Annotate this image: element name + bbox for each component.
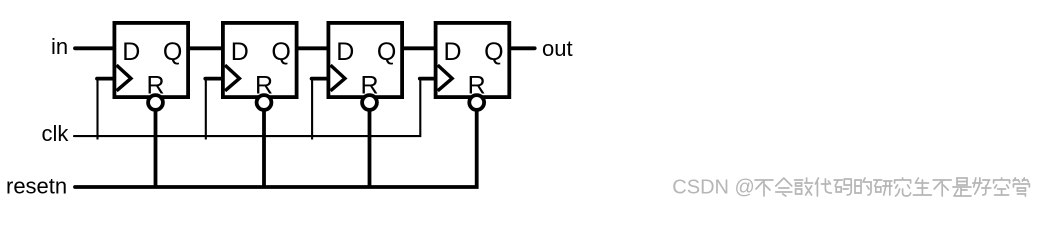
wire reset drop FF2 (262, 103, 266, 188)
wire clk riser FF2 (205, 79, 207, 140)
reset bubble U1 (148, 95, 163, 110)
flip-flop U3 box (328, 23, 402, 97)
wire clk riser FF1 (96, 79, 98, 140)
glyph shi (953, 178, 971, 196)
svg-text:CSDN @: CSDN @ (672, 177, 755, 199)
wire Q1 to D2 (188, 46, 223, 50)
wire resetn net (75, 104, 477, 187)
wire clock stub FF3 (312, 77, 330, 81)
svg-text:resetn: resetn (6, 174, 67, 199)
flip-flop U2 box (223, 23, 297, 97)
svg-text:Q: Q (163, 38, 182, 66)
clock triangle U3 (331, 65, 345, 91)
glyph de (855, 178, 871, 195)
glyph hui (776, 178, 792, 196)
glyph kong (994, 178, 1010, 195)
reset bubble U4 (469, 95, 484, 110)
svg-text:Q: Q (484, 38, 503, 66)
wire reset drop FF3 (368, 103, 372, 188)
svg-text:out: out (542, 36, 573, 61)
wire Q2 to D3 (296, 46, 329, 50)
svg-text:clk: clk (42, 121, 70, 146)
glyph guan (1013, 178, 1029, 196)
flip-flop U2 (205, 23, 296, 110)
svg-text:in: in (51, 34, 68, 59)
flip-flop U3 (312, 23, 402, 110)
flip-flop U4 box (436, 23, 510, 97)
svg-text:D: D (444, 38, 462, 66)
wire Q4 to out (509, 46, 535, 50)
glyph ma (834, 179, 851, 195)
svg-text:D: D (231, 38, 249, 66)
glyph qiao (795, 178, 813, 195)
svg-text:D: D (336, 38, 354, 66)
wire clock stub FF1 (97, 77, 116, 81)
clock triangle U4 (438, 65, 452, 91)
wire in to D1 (75, 46, 114, 50)
reset bubble U2 (257, 95, 272, 110)
wire clock stub FF2 (205, 77, 224, 81)
wire Q3 to D4 (403, 46, 436, 50)
watermark CSDN (672, 177, 756, 200)
glyph yan (874, 180, 892, 195)
glyph bu2 (933, 180, 951, 196)
clock triangle U2 (225, 65, 239, 91)
glyph jiu (895, 178, 911, 196)
wire clk riser FF3 (311, 79, 313, 140)
glyph dai (815, 178, 831, 196)
watermark chinese glyphs (755, 178, 1029, 196)
glyph sheng (913, 178, 931, 195)
flip-flop U4 (420, 23, 510, 110)
glyph hao (973, 178, 991, 195)
reset bubble U3 (362, 95, 377, 110)
svg-text:Q: Q (271, 38, 290, 66)
svg-text:D: D (122, 38, 140, 66)
flip-flop U1 (97, 23, 188, 110)
wire clock stub FF4 (420, 77, 437, 81)
glyph bu (755, 180, 773, 196)
clock triangle U1 (117, 65, 131, 91)
wire reset drop FF1 (154, 103, 158, 188)
flip-flop U1 box (114, 23, 188, 97)
wire clk net horizontal (74, 79, 420, 137)
svg-text:Q: Q (377, 38, 396, 66)
